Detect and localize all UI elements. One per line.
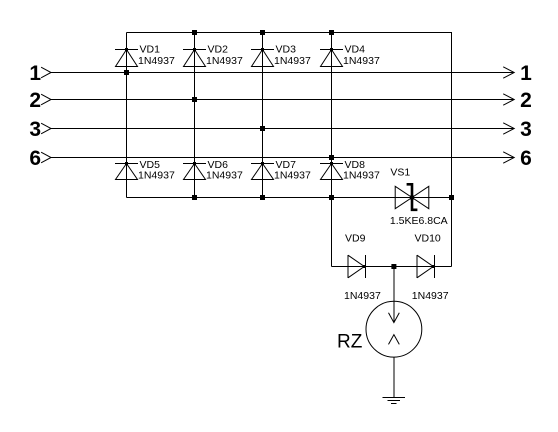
- pin arrow right line 1: [503, 67, 514, 78]
- svg-text:VD10: VD10: [415, 232, 441, 244]
- svg-text:1N4937: 1N4937: [138, 169, 175, 181]
- pin arrow right line 6: [503, 152, 514, 163]
- svg-text:VS1: VS1: [390, 166, 410, 178]
- wire right column: [451, 33, 453, 267]
- pin arrow left line 3: [41, 123, 51, 134]
- wire line 3: [51, 128, 514, 130]
- junction line 6 / VD4 column: [329, 155, 334, 160]
- svg-text:VD2: VD2: [208, 44, 229, 56]
- svg-text:VD4: VD4: [345, 44, 366, 56]
- junction line 2 / VD2 column: [192, 97, 197, 102]
- wire line 6: [51, 157, 514, 159]
- junction bottom bus / right column: [449, 195, 454, 200]
- junction top bus / VD3 column: [260, 30, 265, 35]
- diode VD10: [417, 255, 435, 278]
- svg-text:1N4937: 1N4937: [206, 169, 243, 181]
- svg-text:RZ: RZ: [337, 332, 363, 353]
- svg-text:1N4937: 1N4937: [274, 169, 311, 181]
- svg-text:1: 1: [29, 62, 41, 85]
- wire column VD2/VD6: [194, 33, 196, 198]
- pin arrow left line 1: [41, 67, 51, 78]
- wire RZ bottom electrode to ground: [393, 357, 395, 397]
- surge arrester RZ: [366, 301, 422, 357]
- ground: [383, 398, 406, 404]
- TVS suppressor VS1: [395, 184, 429, 210]
- pin arrow right line 3: [503, 123, 514, 134]
- svg-text:VD3: VD3: [276, 44, 297, 56]
- wire column VD1/VD5: [126, 33, 128, 198]
- pin arrow right line 2: [503, 94, 514, 105]
- junction bottom bus / VD3 column: [260, 195, 265, 200]
- wire center node to RZ top electrode: [393, 267, 395, 323]
- wire column VD3/VD7: [262, 33, 264, 198]
- svg-text:3: 3: [520, 118, 532, 141]
- junction VD9/VD10 center node to RZ: [391, 264, 396, 269]
- pin arrow left line 6: [41, 152, 51, 163]
- wire bottom bus (left of VS1 and right of VS1): [127, 197, 453, 199]
- svg-text:6: 6: [520, 147, 532, 170]
- svg-text:1N4937: 1N4937: [412, 290, 449, 302]
- junction line 3 / VD3 column: [260, 126, 265, 131]
- wire top bus: [127, 32, 453, 34]
- svg-text:1N4937: 1N4937: [344, 290, 381, 302]
- wire VD9/VD10 row: [332, 266, 452, 268]
- svg-text:6: 6: [29, 147, 41, 170]
- svg-text:VD1: VD1: [140, 44, 161, 56]
- diode VD6: [183, 162, 206, 180]
- svg-text:1: 1: [520, 62, 532, 85]
- diode VD9: [348, 255, 366, 278]
- svg-text:1N4937: 1N4937: [138, 55, 175, 67]
- wire line 2: [51, 99, 514, 101]
- diode VD1: [115, 48, 138, 67]
- wire line 1: [51, 72, 514, 74]
- junction bottom bus / VD4 column: [329, 195, 334, 200]
- diode VD5: [115, 162, 138, 180]
- junction bottom bus / VD2 column: [192, 195, 197, 200]
- svg-text:1.5KE6.8CA: 1.5KE6.8CA: [390, 215, 448, 227]
- junction top bus / VD4 column: [329, 30, 334, 35]
- diode VD8: [320, 162, 343, 180]
- svg-text:2: 2: [29, 89, 41, 112]
- svg-text:2: 2: [520, 89, 532, 112]
- diode VD7: [251, 162, 274, 180]
- junction top bus / VD2 column: [192, 30, 197, 35]
- diode VD4: [320, 48, 343, 67]
- svg-text:VD9: VD9: [345, 232, 366, 244]
- svg-text:1N4937: 1N4937: [343, 169, 380, 181]
- diode VD3: [251, 48, 274, 67]
- wire column VD4/VD8 (extends to VD9 row): [331, 33, 333, 267]
- svg-text:1N4937: 1N4937: [274, 55, 311, 67]
- pin arrow left line 2: [41, 94, 51, 105]
- svg-text:1N4937: 1N4937: [206, 55, 243, 67]
- svg-text:3: 3: [29, 118, 41, 141]
- svg-text:1N4937: 1N4937: [343, 55, 380, 67]
- diode VD2: [183, 48, 206, 67]
- junction line 1 / VD1 column: [124, 70, 129, 75]
